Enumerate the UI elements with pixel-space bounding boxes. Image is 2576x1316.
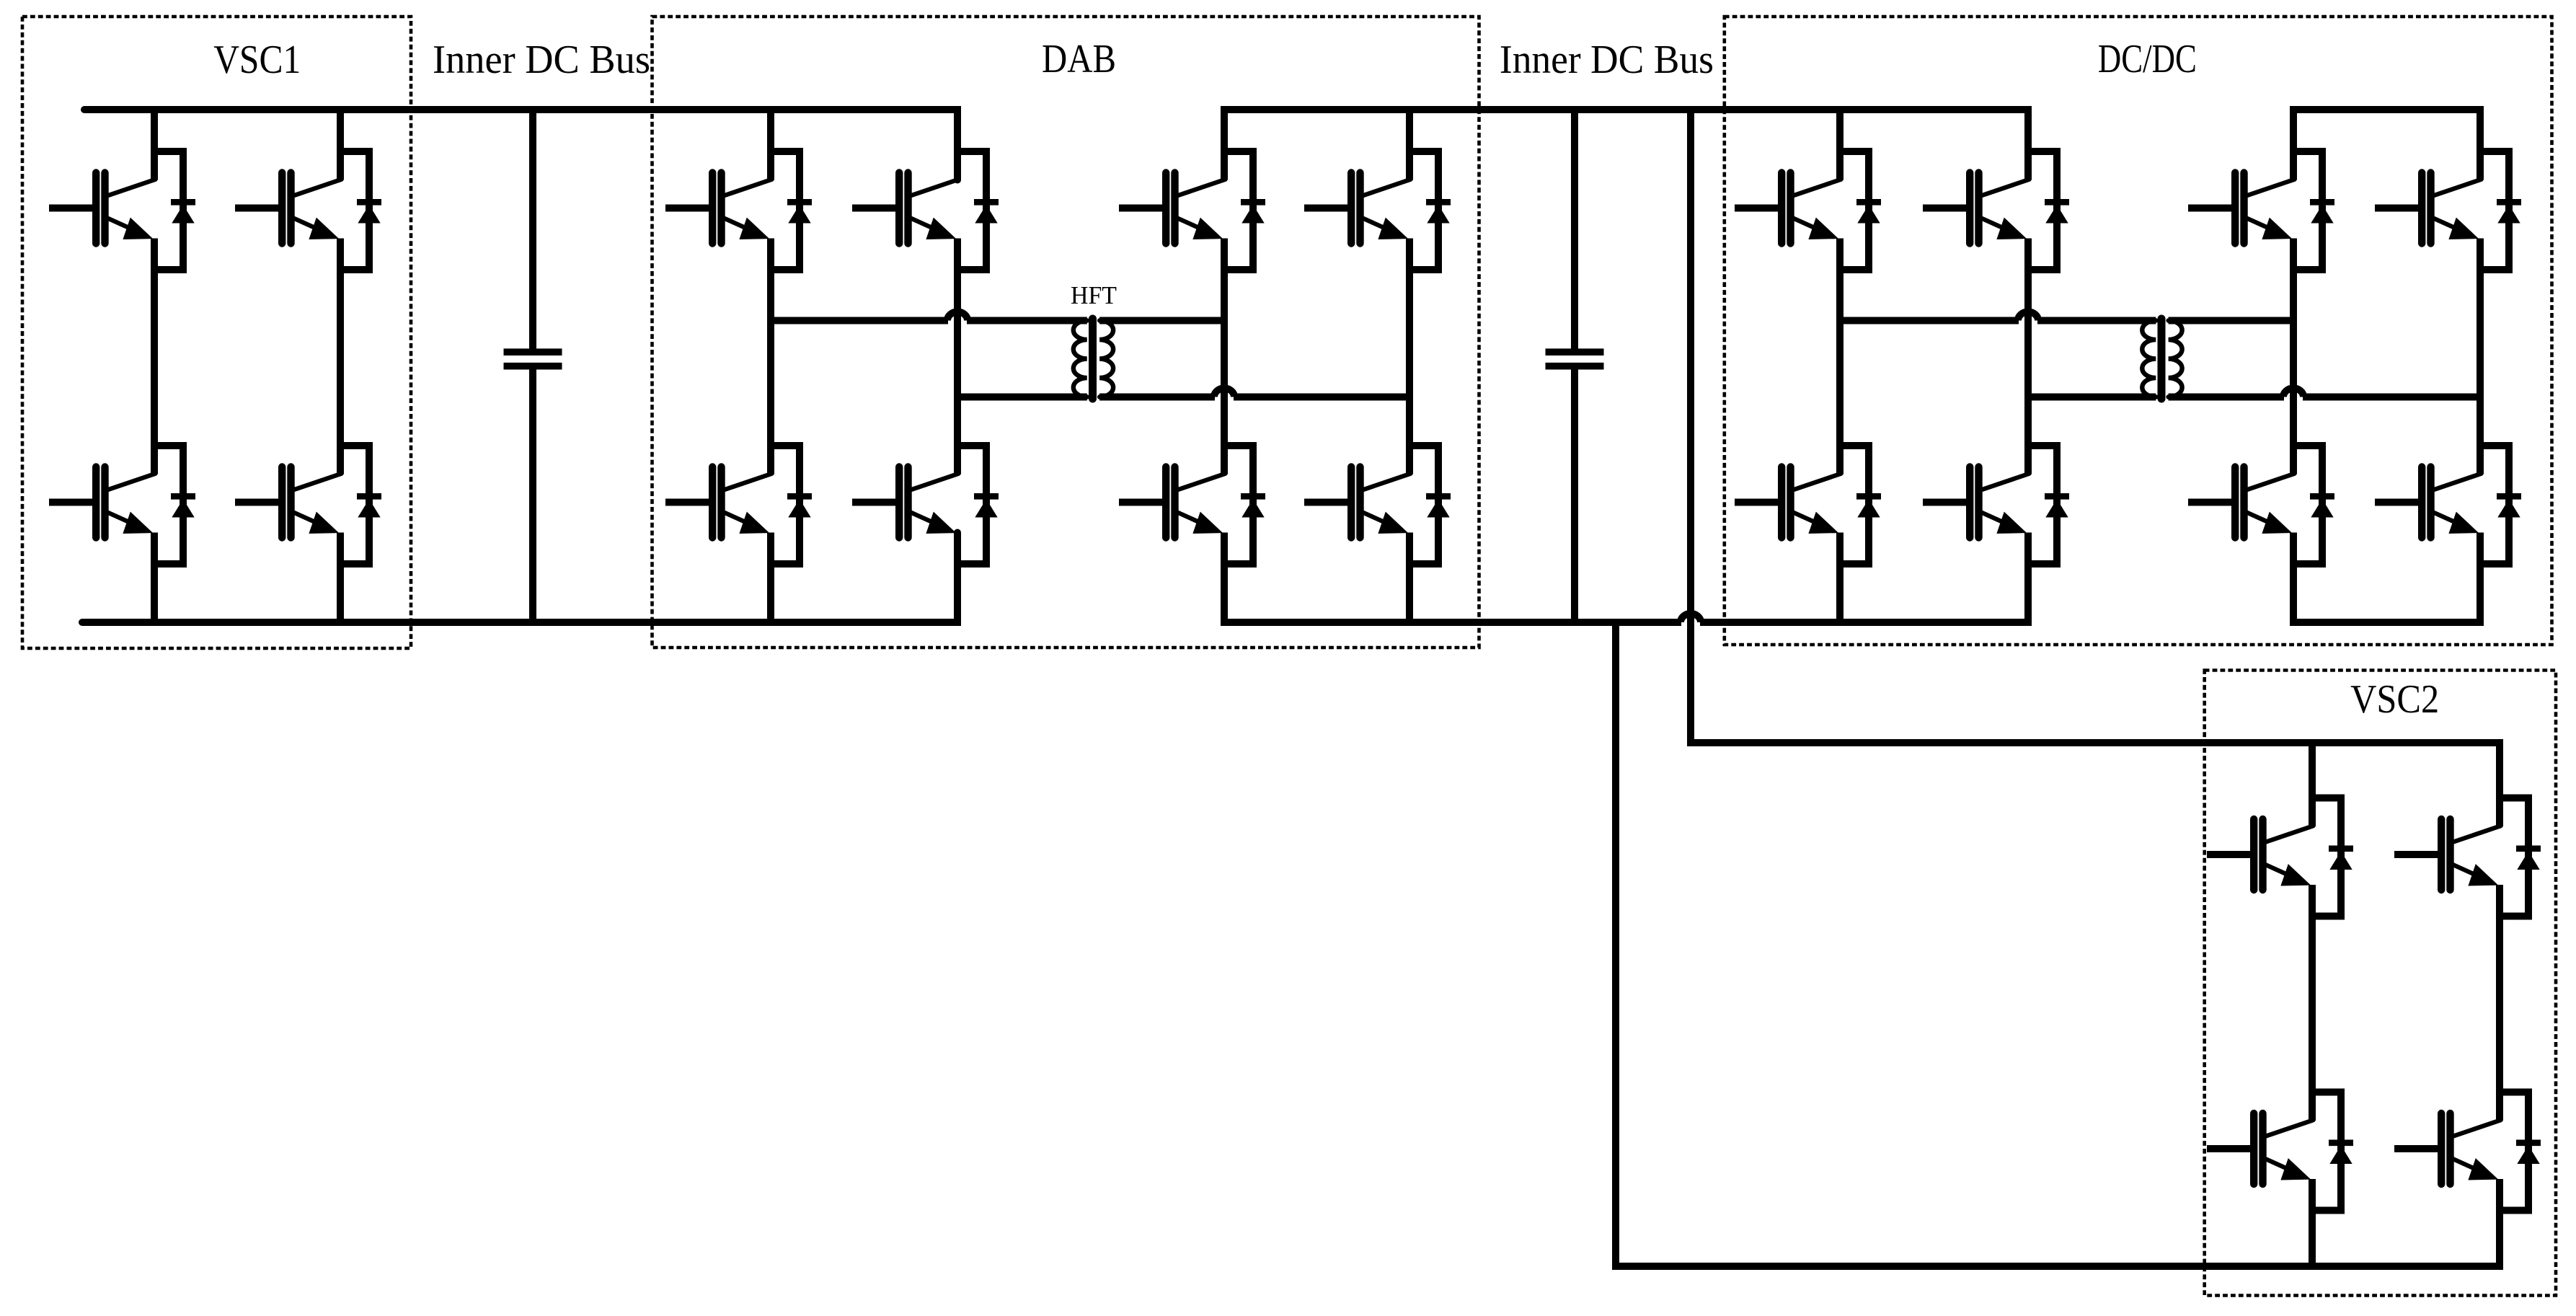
- wire VSC2 leg 2 mid vertical: [2496, 885, 2503, 1121]
- wire DC/DC secondary bottom (transformer toward right bridge leg2): [2169, 394, 2284, 401]
- diode D15 (anti-parallel of Q15): [1840, 446, 1881, 564]
- crossover hop of DC/DC primary top wire over leg 2: [2018, 312, 2038, 321]
- diode D2 (anti-parallel of Q2): [340, 151, 381, 270]
- transformer T2 (DC/DC) primary winding: [2142, 321, 2156, 397]
- transistor Q1: [49, 173, 156, 244]
- transformer T2 (DC/DC) core: [2158, 319, 2166, 399]
- wire DC/DC secondary bottom continued: [2303, 394, 2480, 401]
- transistor Q8: [852, 467, 959, 538]
- wire DAB secondary bottom continued: [1234, 394, 1409, 401]
- transistor Q18: [2375, 173, 2482, 244]
- wire VSC1 leg 2 vertical: [337, 110, 344, 622]
- diode D24 (anti-parallel of Q24): [2500, 1092, 2541, 1211]
- wire DAB primary top continued: [967, 317, 1087, 324]
- transformer HFT primary winding: [1074, 321, 1087, 397]
- wire VSC2 positive feed (top rail down to VSC2 top rail): [1691, 110, 2500, 826]
- transistor Q6: [852, 173, 959, 244]
- diode D21 (anti-parallel of Q21): [2312, 798, 2353, 917]
- dashed boundary box VSC2: [2205, 671, 2556, 1296]
- wire top DC rail segment 2 (DAB right bridge through DC/DC left bridge): [1224, 110, 2028, 180]
- wire VSC1 leg 1 vertical: [151, 110, 158, 622]
- transistor Q23: [2207, 1113, 2314, 1184]
- transistor Q5: [665, 173, 772, 244]
- transistor Q13: [1735, 173, 1841, 244]
- transistor Q2: [235, 173, 342, 244]
- diode D10 (anti-parallel of Q10): [1409, 151, 1451, 270]
- wire DC/DC right bridge leg 1 vertical: [2290, 239, 2297, 474]
- svg-text:DC/DC: DC/DC: [2098, 37, 2197, 81]
- wire DAB primary bottom (leg2 to HFT): [957, 394, 1087, 401]
- dashed boundary box VSC1: [22, 17, 411, 648]
- diode D19 (anti-parallel of Q19): [2293, 446, 2334, 564]
- wire VSC2 leg 1 vertical: [2309, 743, 2316, 1266]
- transistor Q3: [49, 467, 156, 538]
- transistor Q7: [665, 467, 772, 538]
- diode D9 (anti-parallel of Q9): [1224, 151, 1265, 270]
- diode D3 (anti-parallel of Q3): [154, 446, 195, 564]
- crossover hop of DAB primary top wire over leg 2: [947, 312, 968, 321]
- wire bottom DC rail segment 2a (DAB right bridge to crossover): [1224, 533, 1681, 623]
- wire top rail of DC/DC right bridge: [2293, 110, 2480, 180]
- crossover hop of DC/DC secondary bottom wire over leg 1: [2283, 389, 2303, 397]
- transistor Q16: [1923, 467, 2030, 538]
- crossover hop of DAB secondary bottom wire over leg 1: [1214, 389, 1234, 397]
- transistor Q15: [1735, 467, 1841, 538]
- svg-text:VSC1: VSC1: [213, 37, 301, 82]
- svg-text:Inner DC Bus: Inner DC Bus: [1500, 37, 1714, 82]
- wire DAB left bridge leg 2 vertical: [954, 239, 961, 474]
- wire DC/DC left bridge leg 1 vertical: [1836, 110, 1844, 622]
- diode D4 (anti-parallel of Q4): [340, 446, 381, 564]
- wire bottom DC rail segment 1 (VSC1 through DAB left bridge): [82, 533, 957, 623]
- wire DAB right bridge leg 2 vertical: [1406, 110, 1413, 622]
- wire DC/DC secondary top (transformer to right bridge leg1): [2169, 317, 2293, 324]
- transistor Q22: [2394, 819, 2501, 890]
- wire DAB secondary bottom (HFT toward right bridge leg2): [1099, 394, 1215, 401]
- svg-text:VSC2: VSC2: [2350, 677, 2439, 722]
- svg-text:Inner DC Bus: Inner DC Bus: [433, 37, 650, 82]
- wire DAB right bridge leg 1 vertical: [1221, 239, 1228, 474]
- diode D13 (anti-parallel of Q13): [1840, 151, 1881, 270]
- capacitor C2 (inner DC bus): [1546, 110, 1604, 622]
- diode D14 (anti-parallel of Q14): [2028, 151, 2069, 270]
- transistor Q12: [1304, 467, 1411, 538]
- crossover hop of bottom rail over VSC2 positive feed wire: [1681, 614, 1701, 622]
- transistor Q21: [2207, 819, 2314, 890]
- wire bottom rail of DC/DC right bridge: [2293, 533, 2480, 623]
- diode D20 (anti-parallel of Q20): [2480, 446, 2521, 564]
- diode D17 (anti-parallel of Q17): [2293, 151, 2334, 270]
- wire DC/DC primary top continued: [2037, 317, 2156, 324]
- transistor Q4: [235, 467, 342, 538]
- transformer T2 (DC/DC) secondary winding: [2169, 321, 2182, 397]
- transistor Q19: [2188, 467, 2295, 538]
- diode D1 (anti-parallel of Q1): [154, 151, 195, 270]
- wire DAB secondary top (HFT to right bridge leg1): [1099, 317, 1224, 324]
- transistor Q20: [2375, 467, 2482, 538]
- wire VSC2 negative feed (bottom rail down to VSC2 bottom rail): [1616, 622, 2500, 1266]
- capacitor C1 (inner DC bus): [504, 110, 562, 622]
- wire DC/DC right bridge leg 2 vertical: [2477, 239, 2484, 474]
- transistor Q9: [1119, 173, 1226, 244]
- diode D12 (anti-parallel of Q12): [1409, 446, 1451, 564]
- diode D16 (anti-parallel of Q16): [2028, 446, 2069, 564]
- wire top DC rail segment 1 (VSC1 through DAB left bridge): [84, 110, 957, 180]
- dashed boundary box DAB: [652, 17, 1479, 648]
- diode D5 (anti-parallel of Q5): [771, 151, 812, 270]
- transformer HFT secondary winding: [1099, 321, 1113, 397]
- wire DC/DC primary top (leg1 midpoint toward transformer): [1840, 317, 2019, 324]
- wire bottom DC rail segment 2b (crossover to DC/DC left bridge): [1700, 533, 2028, 623]
- diode D23 (anti-parallel of Q23): [2312, 1092, 2353, 1211]
- transistor Q14: [1923, 173, 2030, 244]
- diode D22 (anti-parallel of Q22): [2500, 798, 2541, 917]
- diode D7 (anti-parallel of Q7): [771, 446, 812, 564]
- diode D11 (anti-parallel of Q11): [1224, 446, 1265, 564]
- transistor Q17: [2188, 173, 2295, 244]
- wire DAB primary top (leg1 midpoint to HFT): [771, 317, 948, 324]
- svg-text:DAB: DAB: [1042, 37, 1116, 81]
- wire DC/DC left bridge leg 2 vertical: [2024, 239, 2032, 474]
- diode D18 (anti-parallel of Q18): [2480, 151, 2521, 270]
- transistor Q10: [1304, 173, 1411, 244]
- diode D8 (anti-parallel of Q8): [957, 446, 999, 564]
- wire DC/DC primary bottom (leg2 to transformer): [2028, 394, 2156, 401]
- transformer HFT core: [1089, 319, 1097, 399]
- svg-text:HFT: HFT: [1071, 281, 1117, 309]
- transistor Q24: [2394, 1113, 2501, 1184]
- dashed boundary box DC/DC: [1725, 17, 2552, 645]
- wire DAB left bridge leg 1 vertical: [767, 110, 774, 622]
- diode D6 (anti-parallel of Q6): [957, 151, 999, 270]
- transistor Q11: [1119, 467, 1226, 538]
